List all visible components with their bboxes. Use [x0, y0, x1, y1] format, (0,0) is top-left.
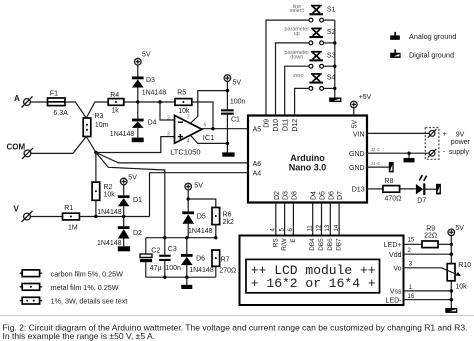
- svg-text:D3: D3: [146, 77, 155, 84]
- svg-text:power: power: [451, 139, 471, 146]
- svg-text:up: up: [294, 31, 300, 37]
- push button S4: [293, 73, 335, 90]
- svg-text:2k2: 2k2: [223, 219, 234, 226]
- svg-text:R5: R5: [177, 89, 186, 96]
- svg-text:Arduino: Arduino: [290, 153, 325, 163]
- wire 5V branch to R6: [188, 199, 216, 208]
- svg-text:VIN: VIN: [353, 131, 365, 138]
- node D6 bottom: [185, 276, 188, 279]
- svg-text:11: 11: [308, 225, 314, 232]
- wire Vdd to bus: [404, 253, 452, 255]
- svg-text:D11: D11: [282, 119, 289, 131]
- svg-text:F1: F1: [50, 91, 58, 98]
- svg-text:R3: R3: [95, 113, 104, 120]
- svg-text:C1: C1: [231, 116, 240, 123]
- node C3 top: [163, 236, 166, 239]
- node pin4/ground junction: [226, 142, 229, 145]
- terminal V: [22, 211, 33, 222]
- svg-text:15: 15: [408, 238, 415, 244]
- svg-text:In this example the range is ±: In this example the range is ±50 V, ±5 A…: [3, 331, 156, 341]
- wire 5V to D5/R6: [187, 190, 189, 212]
- legend 3W resistor: [20, 297, 128, 306]
- svg-text:D1: D1: [133, 197, 142, 204]
- svg-text:+ 16*2 or 16*4 +: + 16*2 or 16*4 +: [251, 276, 376, 291]
- svg-text:1N4148: 1N4148: [142, 90, 167, 97]
- svg-text:D5: D5: [320, 191, 327, 200]
- svg-text:E: E: [290, 238, 297, 242]
- svg-text:47µ: 47µ: [150, 265, 162, 272]
- resistor R9: [422, 241, 438, 248]
- svg-text:1N4148: 1N4148: [189, 267, 214, 274]
- svg-text:IC1: IC1: [203, 133, 215, 142]
- resistor R8: [383, 186, 400, 193]
- push button S2: [285, 27, 336, 45]
- svg-text:3: 3: [167, 132, 170, 138]
- svg-text:A5: A5: [253, 126, 262, 133]
- digital ground (LCD bus): [445, 308, 457, 313]
- svg-text:DB6: DB6: [327, 238, 334, 251]
- svg-text:R4: R4: [110, 92, 119, 99]
- wire D5 to LCD pin 12: [321, 203, 323, 236]
- legend analog ground: [390, 32, 456, 41]
- node C3 bottom: [163, 276, 166, 279]
- wire R6 to reference rail: [215, 225, 217, 238]
- svg-text:A: A: [14, 94, 20, 103]
- wire R3 top to R4 rail: [86, 102, 108, 118]
- svg-text:D6: D6: [328, 191, 335, 200]
- svg-text:D13: D13: [352, 187, 365, 194]
- svg-text:LED+: LED+: [384, 242, 402, 249]
- svg-text:D5: D5: [197, 214, 206, 221]
- svg-text:R1: R1: [64, 205, 73, 212]
- svg-text:2: 2: [408, 248, 412, 254]
- node D5/D6: [185, 236, 188, 239]
- svg-text:A4: A4: [253, 171, 262, 178]
- wire LED- to bus: [404, 299, 452, 301]
- analog ground (below D6): [181, 285, 192, 289]
- svg-text:Analog ground: Analog ground: [409, 32, 456, 41]
- svg-text:1N4148: 1N4148: [110, 131, 135, 138]
- node D1/D2: [122, 215, 125, 218]
- wire R2 to V rail: [95, 200, 97, 216]
- svg-text:1M: 1M: [68, 224, 78, 231]
- capacitor C2: [140, 238, 162, 278]
- wire reference rail: [146, 237, 216, 239]
- svg-text:10k: 10k: [455, 284, 467, 291]
- svg-text:D2: D2: [133, 230, 142, 237]
- wire D7 to LCD pin 14: [338, 203, 340, 236]
- resistor R6: [212, 208, 220, 225]
- svg-text:16: 16: [408, 294, 415, 300]
- svg-text:J1-4: J1-4: [371, 161, 381, 167]
- wire op-amp pin 7 to 5V: [191, 91, 228, 124]
- svg-text:D7: D7: [337, 191, 344, 200]
- svg-text:LED-: LED-: [386, 297, 403, 304]
- resistor R1: [63, 213, 80, 220]
- resistor R2: [92, 182, 100, 200]
- svg-text:D2: D2: [274, 191, 281, 200]
- diode D2: [97, 217, 142, 247]
- svg-text:7: 7: [187, 115, 190, 121]
- wire COM junction to reference rail: [96, 153, 165, 238]
- wire D7 to ground: [425, 188, 436, 190]
- svg-text:14: 14: [334, 224, 340, 231]
- svg-text:LTC1050: LTC1050: [170, 148, 200, 157]
- digital ground (J1-4): [389, 162, 394, 172]
- wire 5V to C1: [226, 81, 228, 109]
- node COM junction: [94, 151, 97, 154]
- svg-text:Vss: Vss: [390, 289, 402, 296]
- wire button bus: [324, 20, 335, 97]
- node 5V/pin7 junction: [226, 89, 229, 92]
- svg-text:Nano 3.0: Nano 3.0: [289, 162, 327, 172]
- diode D5: [182, 211, 212, 237]
- svg-text:D10: D10: [273, 119, 280, 132]
- svg-text:D12: D12: [292, 119, 299, 132]
- op-amp U1 IC1 LTC1050: [175, 115, 202, 143]
- svg-text:GND: GND: [349, 151, 365, 158]
- LED D7: [416, 175, 427, 204]
- analog ground (below C1): [222, 152, 234, 156]
- wire S4 to D12: [295, 88, 309, 115]
- wire S2 to D10: [276, 43, 310, 116]
- svg-text:12: 12: [316, 224, 322, 231]
- svg-text:6.3A: 6.3A: [53, 110, 68, 117]
- svg-text:C2: C2: [151, 247, 160, 254]
- svg-text:+5V: +5V: [359, 94, 372, 101]
- terminal COM: [22, 148, 33, 159]
- node Vdd bus: [450, 253, 453, 256]
- wire COM junction to R2: [95, 153, 97, 183]
- svg-text:R10: R10: [458, 262, 471, 269]
- separator line: [0, 315, 474, 317]
- svg-text:DB4: DB4: [309, 238, 316, 251]
- svg-text:D4: D4: [311, 191, 318, 200]
- svg-text:2: 2: [167, 115, 170, 121]
- node R6/R7: [214, 236, 217, 239]
- svg-text:D3: D3: [283, 191, 290, 200]
- svg-text:3: 3: [409, 261, 413, 267]
- wire S3 to D11: [285, 66, 309, 115]
- wire V rail to A4: [150, 173, 249, 217]
- svg-text:D7: D7: [417, 198, 426, 205]
- wire R9 to bus: [438, 243, 451, 245]
- power 5V (LCD bus): [448, 229, 455, 236]
- power 5V (above D1): [120, 178, 127, 185]
- wire V rail: [79, 216, 149, 218]
- svg-text:select: select: [290, 8, 305, 14]
- svg-text:metal film 1%, 0.25W: metal film 1%, 0.25W: [51, 283, 119, 292]
- legend carbon film resistor: [20, 269, 123, 278]
- svg-text:22Ω: 22Ω: [424, 233, 437, 240]
- svg-text:100n: 100n: [165, 265, 181, 272]
- svg-text:D9: D9: [264, 119, 271, 128]
- wire R7 to bottom rail: [215, 266, 217, 277]
- wire A to F1: [30, 101, 47, 103]
- node 5V branch: [187, 197, 190, 200]
- capacitor C3: [159, 238, 181, 278]
- wire S1 to D9: [266, 20, 309, 115]
- svg-text:COM: COM: [7, 143, 26, 152]
- svg-text:J2-2: J2-2: [371, 147, 381, 153]
- terminal 9V -: [428, 149, 437, 158]
- svg-text:270Ω: 270Ω: [219, 268, 236, 275]
- svg-text:6: 6: [204, 122, 207, 128]
- svg-text:DB5: DB5: [318, 238, 325, 251]
- svg-text:Vo: Vo: [393, 265, 401, 272]
- resistor R3: [83, 118, 91, 137]
- svg-text:R6: R6: [223, 212, 232, 219]
- svg-text:D4: D4: [148, 120, 157, 127]
- svg-text:S1: S1: [327, 6, 336, 13]
- wire LCD bus: [450, 236, 452, 264]
- svg-text:zero: zero: [293, 73, 304, 79]
- wire R8 to D7: [400, 188, 416, 190]
- legend digital ground: [390, 49, 454, 59]
- node pin2 branch: [158, 100, 161, 103]
- wire COM junction to A6: [96, 153, 248, 163]
- wire C1 to ground: [226, 115, 228, 153]
- node feedback/output: [211, 127, 214, 130]
- svg-text:GND: GND: [349, 165, 365, 172]
- node S2 bus: [333, 41, 336, 44]
- svg-text:13: 13: [325, 224, 331, 231]
- svg-text:Digital ground: Digital ground: [409, 50, 454, 59]
- svg-text:V: V: [14, 204, 20, 213]
- diode D1: [97, 185, 142, 217]
- svg-text:Vdd: Vdd: [389, 252, 402, 259]
- potentiometer R10: [441, 262, 471, 291]
- wire V to R1: [30, 216, 62, 218]
- Arduino Nano box: [248, 116, 367, 203]
- terminal 9V +: [428, 129, 437, 138]
- wire GND J2-2: [367, 152, 429, 154]
- svg-text:1N4148: 1N4148: [188, 228, 213, 235]
- node LED- bus: [450, 298, 453, 301]
- push button S1: [290, 4, 336, 22]
- wire D8 to LCD pin 6: [292, 203, 294, 236]
- analog ground (below D4): [132, 138, 144, 143]
- wire D4 to LCD pin 11: [312, 203, 314, 236]
- power 5V (above D5): [185, 183, 192, 190]
- svg-text:470Ω: 470Ω: [385, 195, 402, 202]
- wire D13 to R8: [367, 188, 383, 190]
- node D3/D4 junction: [136, 100, 139, 103]
- svg-text:D6: D6: [196, 256, 205, 263]
- svg-text:carbon film 5%, 0.25W: carbon film 5%, 0.25W: [51, 269, 124, 278]
- node S4 bus: [333, 87, 336, 90]
- wire D6 to LCD pin 13: [329, 203, 331, 236]
- svg-text:9V: 9V: [456, 132, 465, 139]
- svg-text:R2: R2: [104, 184, 113, 191]
- legend metal film resistor: [20, 283, 119, 292]
- svg-text:A6: A6: [253, 161, 262, 168]
- svg-text:5V: 5V: [233, 79, 242, 86]
- wire GND J1-4: [367, 166, 389, 168]
- wire D2 to LCD pin 4: [275, 203, 277, 236]
- svg-text:C3: C3: [168, 246, 177, 253]
- node GND analog ground tap: [407, 152, 410, 155]
- svg-text:R9: R9: [426, 226, 435, 233]
- svg-text:1k: 1k: [111, 107, 119, 114]
- svg-text:1%, 3W, details see text: 1%, 3W, details see text: [51, 297, 128, 306]
- svg-text:5V: 5V: [128, 175, 137, 182]
- svg-text:R7: R7: [221, 257, 230, 264]
- analog ground (below D2): [118, 246, 130, 251]
- svg-text:5V: 5V: [142, 51, 151, 58]
- svg-text:10k: 10k: [104, 192, 116, 199]
- wire COM junction to op-amp pin 3: [96, 137, 174, 153]
- analog ground (9V supply): [408, 153, 410, 158]
- svg-text:1N4148: 1N4148: [97, 240, 122, 247]
- svg-text:1N4148: 1N4148: [97, 209, 122, 216]
- svg-text:R8: R8: [385, 178, 394, 185]
- digital ground (buttons): [329, 98, 341, 103]
- svg-text:supply: supply: [449, 149, 470, 156]
- svg-text:5V: 5V: [351, 119, 358, 128]
- node Vss bus: [450, 289, 453, 292]
- wire LED+ to R9: [404, 243, 423, 245]
- svg-text:RS: RS: [272, 238, 279, 247]
- svg-text:5V: 5V: [455, 225, 464, 232]
- fuse F1: [48, 98, 66, 106]
- node R9 bus: [450, 243, 453, 246]
- LCD display inner box: [246, 259, 380, 292]
- svg-text:down: down: [290, 54, 303, 60]
- wire +5V to Arduino: [353, 108, 355, 116]
- LCD module box: [240, 236, 404, 306]
- node R2 bottom: [94, 215, 97, 218]
- wire to analog ground: [186, 277, 188, 285]
- svg-text:5V: 5V: [194, 183, 203, 190]
- 9V power supply dashed box: [425, 128, 439, 160]
- svg-text:10m: 10m: [95, 122, 109, 129]
- wire Vss to bus: [404, 290, 452, 292]
- resistor R7: [212, 250, 220, 266]
- power +5V (above Arduino): [351, 101, 358, 108]
- wire R3 bottom to COM: [73, 137, 86, 154]
- wire op-amp pin 4 to ground: [191, 135, 228, 143]
- power 5V (above D3): [135, 58, 142, 65]
- svg-text:+: +: [443, 131, 447, 138]
- capacitor C1: [221, 109, 234, 111]
- wire F1 to R3 top: [65, 102, 86, 118]
- svg-text:1: 1: [409, 285, 413, 291]
- power 5V (above C1): [224, 75, 231, 82]
- svg-text:R/W: R/W: [281, 237, 288, 250]
- wire Vo to R10 wiper: [404, 267, 442, 269]
- wire COM: [31, 152, 73, 154]
- diode D6: [181, 238, 214, 278]
- wire R5 feedback to output: [192, 102, 213, 129]
- node S3 bus: [333, 65, 336, 68]
- wire bottom rail: [146, 276, 216, 278]
- svg-text:D8: D8: [291, 191, 298, 200]
- wire rail to op-amp pin 2: [160, 102, 174, 120]
- push button S3: [285, 50, 336, 68]
- resistor R4: [124, 101, 175, 103]
- digital ground (D7): [436, 184, 441, 195]
- resistor R5: [175, 99, 192, 106]
- diode D3: [132, 65, 166, 102]
- wire VIN: [367, 132, 429, 134]
- svg-text:4: 4: [187, 139, 190, 145]
- terminal A: [22, 97, 33, 108]
- svg-text:100n: 100n: [230, 99, 246, 106]
- svg-text:-: -: [443, 149, 446, 156]
- wire R3 bottom to junction: [86, 137, 96, 153]
- wire D3 to LCD pin 5: [284, 203, 286, 236]
- diode D4: [110, 102, 157, 138]
- svg-text:DB7: DB7: [336, 238, 343, 251]
- wire op-amp output to A5: [202, 128, 248, 130]
